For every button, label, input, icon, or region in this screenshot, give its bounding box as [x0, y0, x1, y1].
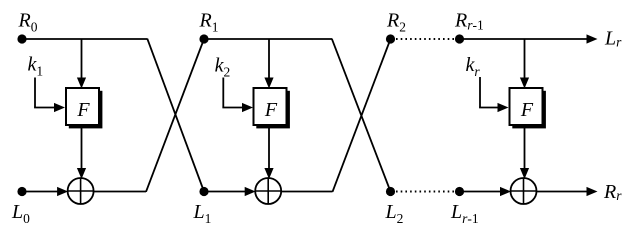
- svg-text:F: F: [76, 99, 90, 121]
- svg-text:F: F: [264, 99, 278, 121]
- svg-text:F: F: [520, 99, 534, 121]
